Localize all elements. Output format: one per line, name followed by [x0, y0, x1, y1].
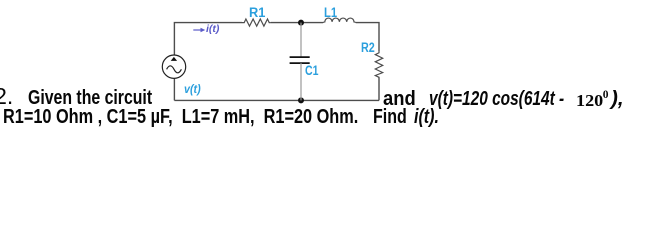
wire: R2 down to bottom-right corner	[378, 78, 380, 101]
label v(t)	[184, 83, 201, 95]
text: i(t).	[414, 107, 439, 127]
capacitor C1 bottom plate	[290, 62, 310, 64]
text: ),	[611, 89, 624, 109]
inductor L1	[323, 18, 356, 23]
text: 120 (serif)	[576, 93, 603, 110]
capacitor C1 top plate	[290, 56, 310, 58]
resistor R1	[242, 19, 271, 26]
problem number 2.	[0, 85, 13, 108]
ac source V circle	[162, 55, 185, 78]
text: and	[383, 89, 416, 109]
ac source arrow	[171, 57, 177, 61]
text: superscript 0	[603, 90, 609, 102]
label L1	[324, 6, 337, 20]
wire: left vertical below source	[173, 79, 175, 101]
wire: left vertical + top-left segment to R1	[174, 23, 242, 55]
text: v(t)=120 cos(614t -	[429, 89, 564, 109]
text: Given the circuit	[28, 88, 152, 108]
ac source sine	[167, 66, 182, 73]
label R2	[361, 41, 375, 55]
text line 2 values	[3, 107, 358, 127]
current direction arrow for i(t)	[193, 29, 202, 31]
node B (bottom junction dot)	[298, 97, 304, 103]
wire: capacitor branch lower	[300, 63, 302, 100]
wire: bottom horizontal	[174, 99, 379, 101]
label C1	[305, 64, 318, 78]
wire: capacitor branch upper	[300, 23, 302, 58]
label i(t)	[206, 24, 219, 35]
resistor R2	[375, 51, 382, 78]
wire: R1 to node A	[271, 22, 323, 24]
text: Find	[373, 107, 407, 127]
node A (top junction dot)	[298, 20, 304, 26]
wire: L1 to top-right corner down to R2	[356, 23, 379, 51]
label R1	[249, 6, 265, 20]
